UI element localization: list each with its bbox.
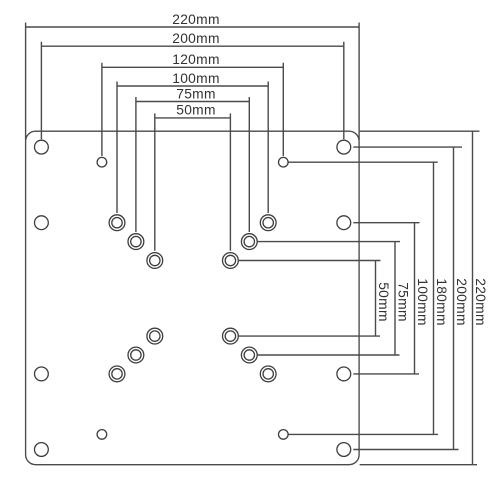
svg-text:200mm: 200mm xyxy=(172,31,220,46)
svg-text:100mm: 100mm xyxy=(415,278,430,326)
hole 200x100 pattern top-right xyxy=(337,216,351,230)
dimension line 100mm (top) xyxy=(117,85,268,87)
dimension line 120mm (top) xyxy=(102,66,283,68)
extension line 220mm right xyxy=(358,23,360,141)
hole VESA 100x100 bottom-left (grommet) xyxy=(109,366,125,382)
dimension line 200mm (top) xyxy=(41,45,343,47)
hole VESA 100x100 top-left (grommet) xyxy=(109,215,125,231)
svg-text:50mm: 50mm xyxy=(376,282,391,322)
plate outline (220x220mm adapter plate) xyxy=(26,131,360,465)
extension line 120mm right xyxy=(282,63,284,156)
hole VESA 50x50 top-right (grommet) xyxy=(223,253,239,269)
svg-text:200mm: 200mm xyxy=(454,278,469,326)
dimension line 75mm (top) xyxy=(136,101,249,103)
hole 120x180 pattern bottom-left xyxy=(97,430,107,440)
svg-text:180mm: 180mm xyxy=(434,278,449,326)
dimension line 220mm (right) xyxy=(472,131,474,465)
svg-text:120mm: 120mm xyxy=(172,52,220,67)
extension line 220mm left xyxy=(25,23,27,141)
hole VESA 75x75 bottom-right (grommet) xyxy=(241,347,257,363)
dimension line 75mm (right) xyxy=(394,242,396,355)
dimension line 220mm (top) xyxy=(26,26,360,28)
extension line 100mm top xyxy=(353,222,419,224)
hole VESA 50x50 top-left (grommet) xyxy=(147,253,163,269)
extension line 200mm top xyxy=(353,146,462,148)
hole VESA 75x75 top-left (grommet) xyxy=(128,234,144,250)
dimension line 100mm (right) xyxy=(414,223,416,374)
extension line 75mm top xyxy=(258,241,400,243)
dimension line 50mm (right) xyxy=(375,261,377,337)
hole 200mm pattern top-right xyxy=(337,140,351,154)
hole VESA 100x100 top-right (grommet) xyxy=(260,215,276,231)
svg-text:220mm: 220mm xyxy=(473,278,488,326)
dimension line 50mm (top) xyxy=(155,117,231,119)
extension line 120mm left xyxy=(101,63,103,156)
extension line 100mm bottom xyxy=(353,373,419,375)
svg-text:75mm: 75mm xyxy=(176,86,216,101)
hole 200x100 pattern top-left xyxy=(35,216,49,230)
hole VESA 75x75 top-right (grommet) xyxy=(241,234,257,250)
extension line 180mm top xyxy=(289,161,438,163)
extension line 200mm right xyxy=(343,42,345,140)
extension line 200mm bottom xyxy=(353,449,458,451)
dimension line 200mm (right) xyxy=(453,147,455,449)
hole VESA 50x50 bottom-left (grommet) xyxy=(147,328,163,344)
extension line 220mm bottom xyxy=(360,464,477,466)
hole VESA 50x50 bottom-right (grommet) xyxy=(223,328,239,344)
extension line 180mm bottom xyxy=(289,433,439,435)
extension line 75mm right xyxy=(248,97,250,232)
dimension line 180mm (right) xyxy=(433,162,435,434)
hole 120x180 pattern top-right xyxy=(279,157,289,167)
extension line 50mm top xyxy=(239,260,381,262)
extension line 200mm left xyxy=(40,42,42,140)
svg-text:220mm: 220mm xyxy=(172,12,220,27)
hole VESA 75x75 bottom-left (grommet) xyxy=(128,347,144,363)
extension line 100mm left xyxy=(116,82,118,214)
extension line 75mm left xyxy=(135,97,137,232)
svg-text:75mm: 75mm xyxy=(396,282,411,322)
extension line 50mm right xyxy=(229,113,231,250)
hole 120x180 pattern top-left xyxy=(97,157,107,167)
hole 200x100 pattern bottom-left xyxy=(35,367,49,381)
hole 120x180 pattern bottom-right xyxy=(279,430,289,440)
hole 200mm pattern bottom-right xyxy=(337,443,351,457)
hole 200mm pattern bottom-left xyxy=(35,443,49,457)
svg-text:50mm: 50mm xyxy=(176,103,216,118)
hole 200x100 pattern bottom-right xyxy=(337,367,351,381)
extension line 50mm bottom xyxy=(239,335,380,337)
hole VESA 100x100 bottom-right (grommet) xyxy=(260,366,276,382)
hole 200mm pattern top-left xyxy=(35,140,49,154)
extension line 75mm bottom xyxy=(258,354,400,356)
svg-text:100mm: 100mm xyxy=(172,71,220,86)
extension line 100mm right xyxy=(267,82,269,214)
extension line 50mm left xyxy=(154,113,156,250)
extension line 220mm top xyxy=(360,130,480,132)
